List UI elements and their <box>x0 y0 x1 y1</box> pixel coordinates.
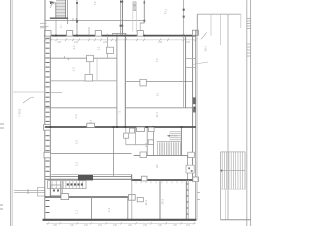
bottom line right column <box>221 219 251 221</box>
svg-text:3B.1: 3B.1 <box>204 46 208 52</box>
svg-text:11: 11 <box>156 93 160 96</box>
svg-text:7.3: 7.3 <box>155 58 159 62</box>
door box on y81.5 <box>140 79 146 86</box>
svg-text:240: 240 <box>74 41 79 44</box>
lower wall right part <box>132 179 196 181</box>
svg-text:240: 240 <box>53 224 58 226</box>
lower wall left part <box>45 178 132 180</box>
svg-text:3.1: 3.1 <box>72 45 76 49</box>
svg-text:240: 240 <box>186 224 191 226</box>
junction dots on major wall <box>49 126 182 128</box>
window box x=66.5 <box>67 31 73 36</box>
svg-text:240: 240 <box>57 41 62 44</box>
ext stair landing line <box>221 170 245 172</box>
steps side line b <box>135 2 137 32</box>
leader diagonal 1 <box>192 62 208 65</box>
spacer none <box>220 45 222 152</box>
bottom partition x91.5 <box>91 197 93 219</box>
walk edge line 1 <box>14 190 45 192</box>
porch bottom line <box>140 22 145 24</box>
interior stair lower treads <box>158 142 181 155</box>
top wall notch right <box>125 33 127 34</box>
right edge line a <box>246 0 248 226</box>
bottom exterior wall <box>43 219 197 221</box>
wing right wall outer <box>120 0 122 35</box>
wc door box left <box>124 133 129 138</box>
dark tick on porch line <box>143 20 145 22</box>
bottom dimension line <box>46 222 196 224</box>
svg-text:2P: 2P <box>155 164 159 168</box>
vestibule vertical 1 <box>55 20 57 35</box>
svg-text:240: 240 <box>158 41 163 44</box>
dark tick on x77 top <box>76 2 78 4</box>
dark tick porch top <box>144 2 146 4</box>
door box lower wall corner <box>193 177 199 182</box>
entry side vertical x140.2 <box>139 23 141 32</box>
wc bottom y144.7 <box>126 144 147 146</box>
door tick pair a <box>64 56 66 58</box>
right zone line a <box>183 36 185 108</box>
stair right stringer <box>65 0 67 18</box>
major wall y127 <box>45 126 196 128</box>
walk edge line 2 <box>14 192 45 194</box>
stall dot 1 <box>53 190 55 192</box>
svg-text:240: 240 <box>158 224 163 226</box>
door box on y155.5 right <box>188 152 195 157</box>
top wall notch top <box>112 32 126 34</box>
corridor left wall <box>116 36 118 127</box>
stair flight rungs <box>56 1 66 17</box>
bottom right wall second <box>187 180 189 219</box>
left margin dash 4 <box>0 208 3 210</box>
svg-text:1.7: 1.7 <box>59 24 63 28</box>
door box left of stair top <box>148 127 154 131</box>
bottom partition x160 <box>159 180 161 219</box>
dark tick 2 on axis line <box>183 16 185 18</box>
long vertical x228 <box>227 14 229 220</box>
terrace vertical x211 <box>210 14 212 35</box>
partition x90 <box>89 58 91 81</box>
wing left wall <box>44 0 46 36</box>
door box lower wall right <box>142 176 148 181</box>
small dash right of wall a <box>198 192 200 194</box>
duct partition y67.5 <box>186 67 196 69</box>
top dimension row <box>45 39 197 41</box>
narrow stall left <box>51 185 61 196</box>
door tick on wing line 2 <box>75 18 77 21</box>
door box on major wall a <box>87 123 95 127</box>
corridor second line x131.8 lower <box>131 181 133 219</box>
svg-text:29.1: 29.1 <box>144 199 148 205</box>
svg-text:2.3: 2.3 <box>74 114 78 118</box>
stair landing dark wall <box>50 17 68 19</box>
terrace elbow x240.8 <box>240 14 242 28</box>
partition x97 <box>96 58 98 81</box>
right edge line b <box>250 0 252 226</box>
partition y81 <box>50 80 117 82</box>
vertical x220.6 upper <box>220 14 222 45</box>
duct dark band 1 <box>193 97 196 104</box>
partition y108 left <box>45 107 117 109</box>
svg-text:240: 240 <box>103 41 108 44</box>
bottom right wall x186 <box>185 180 187 219</box>
door box on x107 partition <box>107 47 114 53</box>
shaft dot 2 <box>191 170 193 172</box>
svg-text:240: 240 <box>98 224 103 226</box>
shaft dot 1 <box>188 167 190 169</box>
vestibule vertical 2 (axis) <box>76 0 78 35</box>
left margin dash 3 <box>0 204 3 206</box>
right zone line b <box>185 36 187 108</box>
post vertical below hatch <box>224 189 226 220</box>
stair direction arrow <box>168 135 178 137</box>
sheet border line outer <box>10 0 12 226</box>
svg-text:7.2: 7.2 <box>93 1 97 5</box>
door tick pair b <box>67 58 69 60</box>
svg-text:73.1: 73.1 <box>164 8 168 14</box>
duct dark band 2 <box>193 109 196 113</box>
left margin dash 1 <box>0 123 4 125</box>
svg-text:1.1: 1.1 <box>97 46 101 50</box>
small shaft box <box>186 165 194 173</box>
svg-text:1.3: 1.3 <box>72 67 76 71</box>
interior stair left boundary <box>152 128 154 156</box>
partition y58 <box>45 57 117 59</box>
partition x107.5 top row <box>107 36 109 59</box>
door box right of wall end <box>137 197 143 201</box>
svg-text:240: 240 <box>186 41 191 44</box>
right wall outer x195.8 <box>195 30 197 220</box>
wall y197 (ends at x134.6) <box>45 196 135 198</box>
svg-text:1.4: 1.4 <box>144 143 148 147</box>
dark door mark on wing wall <box>120 25 124 27</box>
faint boundary x197.3 lower <box>196 36 198 220</box>
dark tick on axis line <box>183 9 185 11</box>
right wall inner x192.6 <box>192 36 194 181</box>
exterior stair treads <box>222 152 242 189</box>
door box on y155.5 <box>140 152 147 158</box>
door box y197 b <box>129 195 136 201</box>
left tick a <box>40 22 47 24</box>
left tick b <box>40 25 49 27</box>
left tick c <box>40 27 47 29</box>
interior stair right boundary <box>180 128 182 156</box>
svg-text:240: 240 <box>143 224 148 226</box>
wc vertical 1 <box>125 128 127 145</box>
small dash right of wall b <box>198 199 200 201</box>
junction dots on top wall <box>55 35 184 37</box>
right wall hatch ticks <box>187 184 189 214</box>
partition y108 right <box>125 107 196 109</box>
lower wall step vertical <box>131 175 133 181</box>
bottom partition x127.8 <box>127 197 129 219</box>
wc vertical 3 <box>146 128 148 156</box>
left wall hatch ticks <box>46 38 50 212</box>
svg-text:2.2: 2.2 <box>75 140 79 144</box>
leader line <box>23 97 34 103</box>
top wall notch left <box>111 33 113 34</box>
window box x=95.2 <box>95 31 101 36</box>
interior stair upper rungs <box>170 132 182 140</box>
door tick on wing line 1 <box>72 18 74 21</box>
partition y81.5 right <box>125 81 192 83</box>
partition y155.5 <box>134 155 188 157</box>
x220.6 lower segment <box>220 152 222 220</box>
svg-text:240: 240 <box>84 224 89 226</box>
wall end post x134.6 <box>134 195 136 201</box>
faint extension line <box>13 91 44 93</box>
ladder dashes right edge upper <box>247 19 251 29</box>
left wall outer line <box>44 30 46 220</box>
svg-text:29.2: 29.2 <box>161 198 165 204</box>
window box x=44.8 <box>45 31 51 36</box>
terrace top line <box>197 13 241 15</box>
ladder dashes right edge mid <box>247 44 251 56</box>
svg-text:1.2: 1.2 <box>107 208 111 212</box>
svg-text:240: 240 <box>128 224 133 226</box>
door box on left wall upper <box>44 125 51 131</box>
wc door box small <box>130 128 135 133</box>
axis line right of entrance <box>183 0 185 35</box>
entrance steps hatch <box>133 2 137 11</box>
bottom dimension texts <box>53 224 191 227</box>
stair wall second line <box>67 0 69 24</box>
stair curved arrow wedge <box>50 1 55 4</box>
porch right line <box>143 0 145 23</box>
leader diagonal 2 <box>201 32 207 39</box>
short line y92.6 <box>50 92 62 94</box>
dark tick right end y108 <box>194 107 196 109</box>
svg-text:240: 240 <box>173 224 178 226</box>
svg-text:240: 240 <box>70 224 75 226</box>
stall dot 2 <box>57 190 59 192</box>
bottom dimension ticks <box>47 222 195 224</box>
left wall inner line <box>49 36 51 197</box>
wing top interior line <box>44 19 144 21</box>
door box left of stair mid <box>148 140 153 145</box>
stair left stringer <box>55 3 57 18</box>
dark tick top of wing wall <box>120 1 123 3</box>
sheet border line inner <box>11 0 13 226</box>
svg-text:2.1: 2.1 <box>75 162 79 166</box>
dark chunk on lower wall <box>78 175 93 180</box>
left margin dash 2 <box>0 127 4 129</box>
window box x=137.2 <box>137 31 143 36</box>
tick on walk lines <box>27 189 29 194</box>
ext stair right boundary <box>244 152 246 189</box>
ext stair bottom line <box>221 188 245 190</box>
svg-text:11.1: 11.1 <box>155 112 159 118</box>
vertical x113.5 <box>113 128 115 177</box>
vestibule vertical 3 <box>88 27 90 35</box>
wc door box wide <box>136 127 144 131</box>
svg-text:7.38,8: 7.38,8 <box>18 108 22 117</box>
terrace vertical x197.3 <box>196 14 198 35</box>
door box y197 a <box>61 194 69 200</box>
dimension ticks below lower wall right <box>136 181 182 183</box>
stair rail arc <box>51 3 57 8</box>
main top wall <box>44 35 196 37</box>
ext stair top line <box>221 151 245 153</box>
steps side line a <box>132 2 134 32</box>
corridor right wall <box>124 36 126 127</box>
dark tick on x77 at wing line <box>76 20 78 23</box>
partition y153.5 <box>50 153 131 155</box>
fixtures row outline <box>48 181 87 189</box>
stall vertical b <box>61 181 63 197</box>
exterior stoop box <box>38 188 45 197</box>
corridor line y174.5 <box>52 174 132 176</box>
wc vertical 2 <box>134 128 136 145</box>
svg-text:16: 16 <box>89 119 93 123</box>
door box top of x90 partition <box>87 55 94 61</box>
window box top right corner <box>192 30 198 35</box>
door box bottom of x90 partition <box>85 75 93 82</box>
wing right wall inner <box>122 0 124 35</box>
corridor line y176.5 <box>45 176 132 178</box>
svg-text:1.1: 1.1 <box>75 210 79 214</box>
vertical x187.4 <box>186 156 188 181</box>
svg-text:240: 240 <box>113 224 118 226</box>
room labels <box>72 1 168 214</box>
dark dot ext stair <box>220 170 222 172</box>
svg-text:7.1: 7.1 <box>118 110 122 114</box>
door box on left wall lower <box>44 152 51 158</box>
stair mid landing line <box>157 140 182 142</box>
duct partition y58.4 <box>186 57 196 59</box>
stall vertical a <box>60 181 62 197</box>
